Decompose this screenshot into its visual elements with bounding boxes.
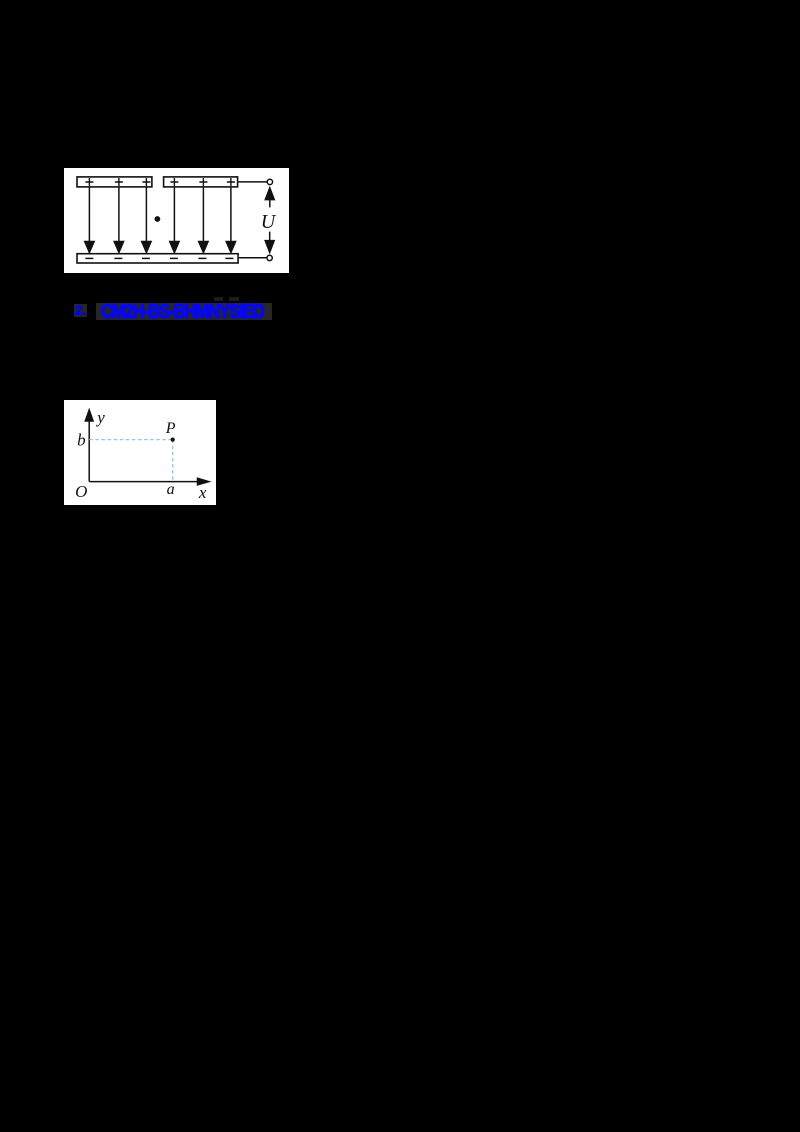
y axis	[85, 410, 93, 482]
figure: xy coordinate system with point P	[64, 400, 216, 505]
wire bottom plate to terminal	[238, 256, 265, 258]
bottom plate	[77, 253, 238, 262]
heading number 2.	[74, 304, 87, 317]
figure: parallel-plate capacitor	[64, 168, 289, 273]
faint marks above heading	[214, 297, 223, 302]
down arrow (U bottom)	[265, 231, 274, 252]
heading blue text	[101, 301, 264, 324]
particle dot	[154, 216, 160, 222]
bottom terminal circle	[266, 255, 271, 260]
svg-text:y: y	[95, 408, 105, 427]
minus signs bottom plate	[85, 257, 233, 259]
field lines with arrowheads	[84, 187, 235, 252]
point P dot	[170, 437, 174, 441]
svg-text:O: O	[75, 482, 87, 501]
svg-text:U: U	[260, 211, 276, 233]
dashed line vertical P to a	[171, 440, 173, 482]
x axis	[89, 478, 209, 485]
top terminal circle	[267, 179, 272, 184]
svg-text:P: P	[165, 420, 176, 437]
top plate right	[163, 176, 237, 186]
plus signs top-left plate	[85, 178, 150, 186]
up arrow (U top)	[265, 187, 274, 207]
dashed line horizontal b to P	[89, 439, 172, 441]
heading highlight band	[96, 303, 272, 320]
wire top plate to terminal	[238, 180, 266, 182]
svg-text:b: b	[77, 430, 86, 449]
svg-text:a: a	[166, 481, 174, 498]
plus signs top-right plate	[170, 178, 234, 186]
top plate left	[77, 176, 152, 186]
svg-text:x: x	[198, 483, 207, 502]
